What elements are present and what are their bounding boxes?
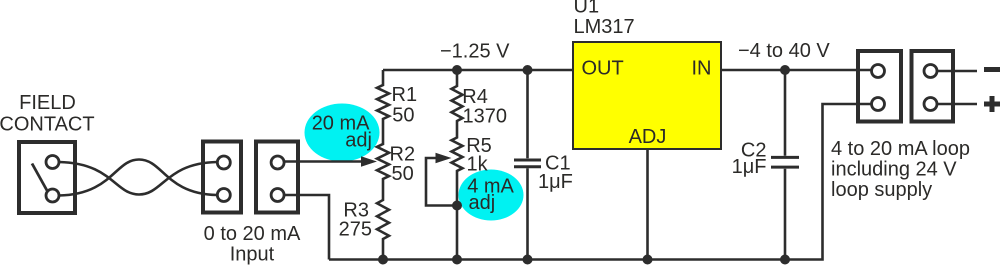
- svg-text:FIELD: FIELD: [19, 92, 76, 114]
- svg-text:4 to 20 mA loop: 4 to 20 mA loop: [831, 138, 970, 160]
- svg-text:adj: adj: [345, 130, 372, 152]
- svg-text:1μF: 1μF: [538, 171, 573, 193]
- svg-text:0 to 20 mA: 0 to 20 mA: [204, 223, 301, 245]
- svg-text:1370: 1370: [463, 106, 508, 128]
- svg-text:50: 50: [392, 163, 414, 185]
- svg-text:LM317: LM317: [574, 16, 635, 38]
- svg-text:loop supply: loop supply: [831, 179, 932, 201]
- svg-text:including 24 V: including 24 V: [831, 159, 957, 181]
- svg-text:IN: IN: [692, 58, 712, 80]
- svg-text:1k: 1k: [467, 154, 489, 176]
- svg-text:−1.25 V: −1.25 V: [440, 41, 510, 63]
- svg-text:adj: adj: [469, 192, 496, 214]
- svg-text:OUT: OUT: [582, 58, 624, 80]
- svg-text:Input: Input: [230, 244, 275, 266]
- svg-text:CONTACT: CONTACT: [0, 114, 95, 136]
- svg-text:−4 to 40 V: −4 to 40 V: [738, 40, 830, 62]
- svg-text:1μF: 1μF: [732, 156, 767, 178]
- svg-text:275: 275: [339, 218, 372, 240]
- svg-text:50: 50: [392, 105, 414, 127]
- svg-text:ADJ: ADJ: [629, 126, 667, 148]
- svg-text:R1: R1: [392, 84, 418, 106]
